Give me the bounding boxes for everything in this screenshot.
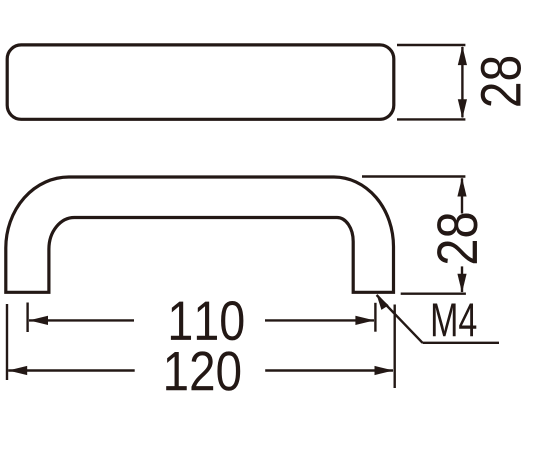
dimension line 120 left segment <box>8 369 135 371</box>
dimension line 120 right segment <box>265 369 393 371</box>
arrowhead down (top view 28) <box>458 99 467 118</box>
dimension line 28 upper segment (front view) <box>461 178 463 213</box>
label 110 <box>171 301 244 340</box>
dimension line 110 left segment <box>29 319 134 321</box>
leader line diagonal (M4) <box>377 295 423 343</box>
dimension line 28 lower segment (front view) <box>461 266 463 292</box>
extension line (110 left) <box>26 303 28 333</box>
extension line (120 left) <box>6 304 8 380</box>
arrowhead down (front view 28) <box>457 274 466 293</box>
label 28 (top view, rotated) <box>481 57 521 106</box>
extension line (front view 28, upper) <box>362 175 465 177</box>
label 28 (front view, rotated) <box>437 214 477 264</box>
extension line (front view 28, lower) <box>401 293 466 295</box>
arrowhead right (110) <box>355 316 374 325</box>
arrowhead left (120) <box>8 366 27 375</box>
dimension line 110 right segment <box>265 319 374 321</box>
extension line (top view 28, lower) <box>397 118 465 120</box>
extension line (top view 28, upper) <box>397 44 465 46</box>
label M4 <box>433 303 476 336</box>
extension line (120 right) <box>394 305 396 389</box>
label 120 <box>166 351 240 390</box>
leader arrowhead (M4, pointing up-left at foot) <box>377 295 389 310</box>
arrowhead left (110) <box>29 316 48 325</box>
top view outline (rounded bar seen from above) <box>7 45 394 119</box>
arrowhead right (120) <box>375 366 394 375</box>
arrowhead up (front view 28) <box>457 178 466 197</box>
leader line horizontal (M4) <box>423 342 500 344</box>
extension line (110 right) <box>374 303 376 332</box>
dimension line 28 (top view) <box>461 47 463 117</box>
arrowhead up (top view 28) <box>458 46 467 65</box>
front view outline (handle profile: outer contour, feet, inner contour) <box>6 177 394 292</box>
